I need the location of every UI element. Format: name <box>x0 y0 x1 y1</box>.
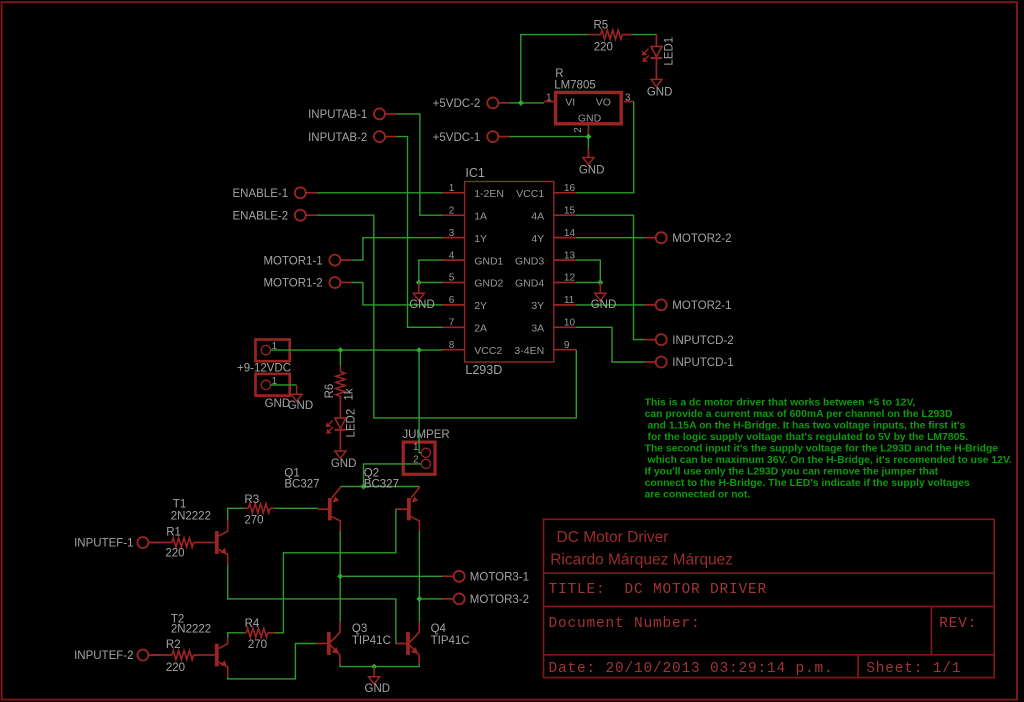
svg-text:MOTOR3-1: MOTOR3-1 <box>470 572 529 584</box>
svg-text:VCC2: VCC2 <box>474 345 502 357</box>
title block author text <box>550 551 733 568</box>
terminal INPUTCD-2 <box>644 334 733 347</box>
svg-text:1: 1 <box>546 93 552 104</box>
title block sheet text <box>866 661 961 677</box>
transistor Q4 TIP41C <box>396 622 470 665</box>
IC1 pin 15 (4A) <box>531 205 576 222</box>
svg-text:TIP41C: TIP41C <box>352 635 391 647</box>
wire jumper pin 2 to Q1/Q2 emitter rail <box>364 464 422 487</box>
wire Q1-Q2 emitter rail <box>340 486 419 488</box>
wire connector pin2 to ground <box>271 384 297 386</box>
transistor Q1 BC327 <box>284 468 340 531</box>
svg-text:which can be maximum 36V. On t: which can be maximum 36V. On the H-Bridg… <box>645 455 1012 466</box>
label +9-12VDC <box>237 363 291 375</box>
svg-text:can provide a current max of 6: can provide a current max of 600mA per c… <box>645 409 953 420</box>
svg-text:VI: VI <box>565 97 575 109</box>
ground below LED2 <box>331 451 357 470</box>
svg-text:GND: GND <box>365 683 391 695</box>
LED LED2 <box>326 409 358 451</box>
wire R5 to LED1 <box>633 34 657 36</box>
svg-text:connect to the H-Bridge. The L: connect to the H-Bridge. The LED's indic… <box>645 478 970 489</box>
resistor R6 <box>324 350 356 418</box>
resistor R3 <box>244 494 274 526</box>
terminal MOTOR2-1 <box>644 299 731 312</box>
svg-text:2Y: 2Y <box>474 300 487 312</box>
svg-text:13: 13 <box>564 250 576 261</box>
svg-text:GND1: GND1 <box>474 255 503 267</box>
svg-text:IC1: IC1 <box>465 166 485 180</box>
svg-text:VCC1: VCC1 <box>516 188 544 200</box>
terminal INPUTEF-2 <box>74 650 160 663</box>
terminal MOTOR2-2 <box>644 232 731 245</box>
wire INPUTAB-1 to pin 2 (1A) <box>396 114 443 215</box>
svg-text:VO: VO <box>596 97 611 109</box>
svg-text:ENABLE-1: ENABLE-1 <box>232 188 288 200</box>
svg-text:220: 220 <box>165 548 184 560</box>
svg-text:Sheet: 1/1: Sheet: 1/1 <box>866 661 961 677</box>
terminal MOTOR1-1 <box>263 255 351 268</box>
svg-text:2A: 2A <box>474 323 487 335</box>
svg-text:270: 270 <box>248 639 267 651</box>
svg-text:MOTOR1-2: MOTOR1-2 <box>263 278 322 290</box>
junction MOTOR3-1 tap <box>337 573 343 579</box>
svg-text:1: 1 <box>449 183 455 194</box>
terminal MOTOR3-1 <box>442 571 529 584</box>
svg-text:BC327: BC327 <box>364 478 399 490</box>
wire +5VDC-1 to LM7805 GND pin <box>509 137 588 149</box>
svg-text:R2: R2 <box>166 639 181 651</box>
svg-text:for the logic supply voltage t: for the logic supply voltage that's regu… <box>645 432 969 443</box>
terminal MOTOR3-2 <box>442 593 529 606</box>
svg-text:INPUTEF-1: INPUTEF-1 <box>74 538 133 550</box>
junction MOTOR3-2 tap <box>416 596 422 602</box>
svg-text:R1: R1 <box>166 527 181 539</box>
wire T1 collector to R3 <box>228 508 245 520</box>
svg-text:Q4: Q4 <box>431 623 447 635</box>
svg-text:DC Motor Driver: DC Motor Driver <box>557 529 669 546</box>
title block outer box <box>544 519 995 677</box>
svg-text:220: 220 <box>594 42 613 54</box>
svg-text:5: 5 <box>449 273 455 284</box>
svg-text:2: 2 <box>449 205 455 216</box>
svg-text:GND2: GND2 <box>474 278 503 290</box>
svg-text:14: 14 <box>564 228 576 239</box>
pin 2 of LM7805 <box>573 124 589 135</box>
wire Q2 collector down to Q4 collector <box>418 531 420 622</box>
svg-text:3-4EN: 3-4EN <box>514 345 544 357</box>
svg-text:3: 3 <box>449 228 455 239</box>
wire +5VDC-2 to R5 (up and over) <box>521 35 589 103</box>
svg-text:LED1: LED1 <box>663 37 675 66</box>
svg-text:GND: GND <box>409 299 435 311</box>
svg-text:GND3: GND3 <box>515 255 544 267</box>
svg-text:10: 10 <box>564 318 576 329</box>
svg-text:1k: 1k <box>344 388 356 400</box>
wire Q2 base to R4 <box>275 509 397 633</box>
wire MOTOR1-2 to pin 6 (2Y) <box>352 283 443 305</box>
junction at GND4 tie <box>597 280 603 286</box>
IC1 pin 10 (3A) <box>531 318 576 335</box>
svg-text:15: 15 <box>564 205 576 216</box>
svg-text:ENABLE-2: ENABLE-2 <box>232 210 288 222</box>
svg-text:1Y: 1Y <box>474 233 487 245</box>
svg-text:BC327: BC327 <box>284 478 319 490</box>
svg-text:LM7805: LM7805 <box>554 80 596 92</box>
svg-text:2N2222: 2N2222 <box>171 511 211 523</box>
svg-text:T1: T1 <box>173 499 186 511</box>
pin 3 of LM7805 <box>624 93 634 104</box>
ground for GND1/GND2 <box>409 283 435 311</box>
wire INPUTAB-2 to pin 7 (2A) <box>396 137 443 328</box>
svg-text:R4: R4 <box>245 618 260 630</box>
title block TITLE row text <box>549 582 768 598</box>
svg-text:1: 1 <box>413 442 419 453</box>
svg-text:GND: GND <box>265 398 291 410</box>
IC1 pin 4 (GND1) <box>442 250 503 267</box>
wire R3 to Q1 base <box>275 507 318 509</box>
svg-text:MOTOR3-2: MOTOR3-2 <box>470 594 529 606</box>
wire to MOTOR3-1 <box>340 575 442 577</box>
wire T1 emitter to Q4 base <box>228 565 397 644</box>
terminal ENABLE-1 <box>232 187 317 200</box>
IC1 pin 1 (1-2EN) <box>442 183 504 200</box>
description text block <box>645 397 1012 500</box>
svg-text:INPUTCD-1: INPUTCD-1 <box>672 357 733 369</box>
svg-text:3Y: 3Y <box>531 300 544 312</box>
transistor Q2 BC327 <box>364 468 420 531</box>
svg-text:MOTOR1-1: MOTOR1-1 <box>263 255 322 267</box>
svg-text:6: 6 <box>449 295 455 306</box>
connector X +9-12VDC pin 2 box <box>256 374 290 396</box>
svg-text:MOTOR2-2: MOTOR2-2 <box>672 233 731 245</box>
junction emitter rail to jumper <box>361 484 367 490</box>
svg-text:This is a dc motor driver that: This is a dc motor driver that works bet… <box>645 397 916 408</box>
wire pin 11 (3Y) to MOTOR2-1 <box>576 304 645 306</box>
svg-text:INPUTAB-2: INPUTAB-2 <box>308 132 367 144</box>
svg-text:Q3: Q3 <box>352 623 367 635</box>
IC1 pin 13 (GND3) <box>515 250 576 267</box>
IC1 pin 11 (3Y) <box>531 295 576 312</box>
wire T2 collector to R4 <box>228 633 244 638</box>
svg-text:11: 11 <box>564 295 575 306</box>
svg-text:Document Number:: Document Number: <box>549 616 701 632</box>
title block row dividers <box>544 573 995 677</box>
wire LM7805 VO to IC1 VCC1 pin 16 <box>576 102 634 193</box>
IC1 pin 9 (3-4EN) <box>514 340 576 357</box>
svg-text:R: R <box>555 68 563 80</box>
IC U IC1 L293D body <box>465 166 554 377</box>
wire Q3-Q4 emitter rail <box>340 665 419 667</box>
svg-text:+5VDC-1: +5VDC-1 <box>433 132 481 144</box>
svg-text:MOTOR2-1: MOTOR2-1 <box>672 300 731 312</box>
IC1 pin 16 (VCC1) <box>516 183 576 200</box>
terminal ENABLE-2 <box>232 210 317 223</box>
svg-text:R5: R5 <box>593 19 608 31</box>
svg-text:+5VDC-2: +5VDC-2 <box>433 98 481 110</box>
terminal INPUTAB-1 <box>308 108 396 121</box>
svg-text:INPUTCD-2: INPUTCD-2 <box>672 335 733 347</box>
junction emitter rail to ground <box>371 664 377 670</box>
IC1 pin 5 (GND2) <box>442 273 503 290</box>
wire pin 15 (4A) to INPUTCD-2 <box>576 215 645 339</box>
wire rail to jumper pin 1 <box>419 350 421 453</box>
pin 1 of LM7805 <box>544 93 554 104</box>
svg-text:GND: GND <box>578 112 602 124</box>
svg-text:4: 4 <box>449 250 455 261</box>
svg-text:GND: GND <box>647 86 673 98</box>
svg-text:INPUTAB-1: INPUTAB-1 <box>308 109 367 121</box>
resistor R5 <box>589 19 633 53</box>
title block date text <box>549 661 834 677</box>
svg-text:R6: R6 <box>324 384 336 399</box>
wire pins 13,12 (GND3,GND4) tied <box>576 260 600 282</box>
svg-text:REV:: REV: <box>939 616 977 632</box>
terminal INPUTEF-1 <box>74 537 160 550</box>
svg-text:9: 9 <box>564 340 570 351</box>
terminal +5VDC-2 <box>433 97 510 110</box>
terminal MOTOR1-2 <box>263 277 351 290</box>
voltage regulator U LM7805 <box>554 68 621 124</box>
transistor T2 2N2222 <box>171 613 228 677</box>
terminal INPUTAB-2 <box>308 131 396 144</box>
ground below LM7805 <box>579 149 605 177</box>
svg-text:GND: GND <box>331 458 357 470</box>
svg-text:3A: 3A <box>531 323 544 335</box>
IC1 pin 6 (2Y) <box>442 295 487 312</box>
svg-text:GND4: GND4 <box>515 278 544 290</box>
svg-text:GND: GND <box>288 400 314 412</box>
wire pin 14 (4Y) to MOTOR2-2 <box>576 237 645 239</box>
wire T2 emitter to Q3 base <box>228 644 317 679</box>
ground below Q3/Q4 <box>365 667 391 695</box>
wire ENABLE-1 to pin 1 (1-2EN) <box>317 192 443 194</box>
svg-text:16: 16 <box>564 183 576 194</box>
svg-text:12: 12 <box>564 273 576 284</box>
svg-text:L293D: L293D <box>465 363 502 377</box>
svg-text:If you'll use only the L293D y: If you'll use only the L293D you can rem… <box>645 467 939 478</box>
terminal INPUTCD-1 <box>644 357 733 370</box>
svg-text:Date: 20/10/2013 03:29:14 p.m.: Date: 20/10/2013 03:29:14 p.m. <box>549 661 834 677</box>
svg-text:3: 3 <box>625 93 631 104</box>
svg-text:2: 2 <box>573 127 584 133</box>
IC1 pin 12 (GND4) <box>515 273 576 290</box>
jumper JP JUMPER box <box>402 429 449 475</box>
svg-text:1A: 1A <box>474 210 487 222</box>
resistor R1 <box>148 527 205 560</box>
svg-text:270: 270 <box>244 515 263 527</box>
wire MOTOR1-1 to pin 3 (1Y) <box>352 238 443 260</box>
junction on +5VDC-2 wire <box>518 100 524 106</box>
transistor T1 2N2222 <box>171 499 228 565</box>
ground below LED1 <box>647 79 673 98</box>
svg-text:INPUTEF-2: INPUTEF-2 <box>74 650 133 662</box>
svg-text:The second input it's the supp: The second input it's the supply voltage… <box>645 444 999 455</box>
terminal +5VDC-1 <box>433 131 510 144</box>
wire Q1 collector down to Q3 collector <box>339 531 341 622</box>
svg-text:4Y: 4Y <box>531 233 544 245</box>
wire +9-12VDC rail to pin 8 (VCC2) <box>271 349 443 351</box>
wire pin 10 (3A) to INPUTCD-1 <box>576 327 645 362</box>
connector X +9-12VDC pin 1 box <box>256 340 290 362</box>
IC1 pin 2 (1A) <box>442 205 487 222</box>
junction rail to jumper pin 1 <box>416 347 422 353</box>
junction under LM7805 pin 2 <box>585 134 591 140</box>
svg-text:GND: GND <box>579 164 605 176</box>
svg-text:1-2EN: 1-2EN <box>474 188 504 200</box>
svg-text:7: 7 <box>449 318 455 329</box>
svg-text:Ricardo Márquez Márquez: Ricardo Márquez Márquez <box>550 551 733 568</box>
svg-text:2N2222: 2N2222 <box>171 623 211 635</box>
svg-text:TITLE: DC MOTOR DRIVER: TITLE: DC MOTOR DRIVER <box>549 582 768 598</box>
junction rail to R6 <box>337 347 343 353</box>
IC1 pin 8 (VCC2) <box>442 340 502 357</box>
title block REV text <box>939 616 977 632</box>
LED LED1 <box>642 34 676 80</box>
svg-text:JUMPER: JUMPER <box>402 429 449 441</box>
ground at +9-12VDC connector <box>265 385 314 412</box>
IC1 pin 3 (1Y) <box>442 228 487 245</box>
svg-text:and 1.15A on the H-Bridge. It: and 1.15A on the H-Bridge. It has two vo… <box>645 420 966 431</box>
ground for GND3/GND4 <box>591 283 617 311</box>
IC1 pin 14 (4Y) <box>531 228 576 245</box>
wire ENABLE-2 to pin 9 (3-4EN) <box>317 215 576 418</box>
wire pins 4,5 (GND1,GND2) tied <box>419 260 443 282</box>
IC1 pin 7 (2A) <box>442 318 487 335</box>
transistor Q3 TIP41C <box>317 622 391 665</box>
wire +5VDC-2 to LM7805 VI <box>509 102 544 104</box>
svg-text:are connected or not.: are connected or not. <box>645 490 751 501</box>
junction at GND2 tie <box>416 280 422 286</box>
wire to MOTOR3-2 <box>419 598 442 600</box>
svg-text:220: 220 <box>166 662 185 674</box>
svg-text:8: 8 <box>449 340 455 351</box>
title block document number text <box>549 616 701 632</box>
resistor R4 <box>244 618 275 651</box>
svg-text:LED2: LED2 <box>345 409 357 438</box>
svg-text:TIP41C: TIP41C <box>431 635 470 647</box>
svg-text:R3: R3 <box>244 494 259 506</box>
resistor R2 <box>148 639 205 674</box>
svg-text:GND: GND <box>591 299 617 311</box>
title block project name text <box>557 529 669 546</box>
svg-text:4A: 4A <box>531 210 544 222</box>
